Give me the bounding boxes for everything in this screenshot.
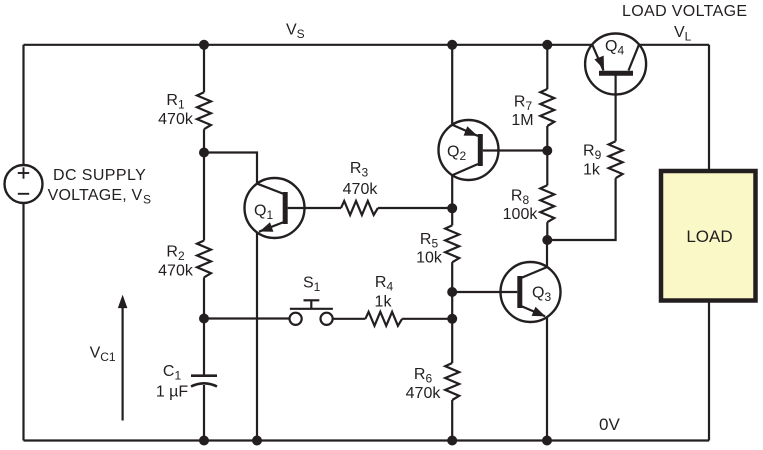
node: Q1 emitter/0V rail [252,436,262,446]
node: R6/0V rail [447,436,457,446]
wire: R9 top to Q4 base [614,76,616,142]
svg-text:1 µF: 1 µF [156,384,189,401]
wire: left rail upper [22,45,24,166]
node: VS rail / R7 [542,40,552,50]
transistor Q1 [245,178,305,238]
wire: left rail lower [22,203,24,441]
svg-text:Q2: Q2 [447,144,466,164]
node: Q3 emitter/0V rail [542,436,552,446]
node: R3/R5/Q2-collector junction [447,203,457,213]
wire: top rail right of Q4 to VL corner [639,44,709,46]
resistor R4 [365,312,402,326]
node: C1/0V rail [199,436,209,446]
transistor Q4 [585,34,646,95]
node: R8/Q3-collector/R9 junction [542,235,552,245]
svg-text:R9: R9 [583,143,602,163]
wire: R7 to R8 [546,126,548,185]
wire: R4 to R5/R6 node [402,318,452,320]
wire: Q1 emitter to 0V rail [256,232,258,440]
capacitor C1 [191,376,217,387]
resistor R2 [197,241,211,278]
svg-text:LOAD: LOAD [686,227,732,246]
resistor R5 [445,225,459,262]
svg-text:LOAD VOLTAGE: LOAD VOLTAGE [622,3,747,20]
resistor R7 [540,89,554,126]
svg-text:470k: 470k [343,181,379,198]
wire: Q2 collector down to R3/R5 node [451,175,453,208]
svg-text:R7: R7 [514,94,533,114]
svg-text:Q1: Q1 [254,203,273,223]
svg-text:R5: R5 [420,231,439,251]
resistor R1 [197,92,211,129]
svg-text:R6: R6 [414,366,433,386]
svg-text:100k: 100k [503,206,539,223]
wire: VS rail to Q2 emitter [451,45,453,125]
wire: junction to Q1 collector [204,153,257,184]
wire: R6 to 0V rail [451,400,453,441]
svg-text:S1: S1 [303,275,321,295]
wire: node to R5 [451,208,453,225]
node: R7/R8/Q2 base junction [542,146,552,156]
wire: C1 bottom to 0V rail [203,385,205,441]
resistor R6 [445,363,459,400]
annotation: VC1 arrow [121,306,123,421]
svg-text:Q4: Q4 [605,38,624,58]
transistor Q3 [501,262,561,322]
wire: R2 bottom to C1 top [203,277,205,375]
svg-text:R4: R4 [375,274,394,294]
node: R2/C1/S1 junction [199,314,209,324]
wire: R1 bottom to R2 top [203,129,205,240]
node: R4/R5/R6 junction [447,314,457,324]
svg-text:R8: R8 [511,188,530,208]
switch S1 (pushbutton) [204,317,289,319]
svg-text:R1: R1 [166,92,185,112]
svg-text:VL: VL [674,24,692,44]
node: R1/R2/Q1-collector junction [199,148,209,158]
wire: node to R9 (bottom) [547,178,615,240]
svg-text:VC1: VC1 [90,345,116,365]
wire: load bottom to 0V rail [708,301,710,441]
wire: bottom 0V rail [24,439,710,441]
svg-text:C1: C1 [163,363,182,383]
load box [661,171,756,301]
wire: R8 to node [546,222,548,240]
svg-text:0V: 0V [599,415,620,434]
node: VS rail / Q1-R1 branch [199,40,209,50]
wire: VL corner down to load [708,45,710,170]
svg-text:1k: 1k [583,162,601,179]
svg-text:Q3: Q3 [532,285,551,305]
wire: Q3 collector up to node [546,240,548,267]
wire: R3 to R5 node [378,207,452,209]
wire: VS rail to R1 [203,45,205,93]
wire: Q3 emitter to 0V rail [546,317,548,440]
resistor R3 [341,201,378,215]
resistor R9 [609,141,623,178]
node: Q3 base junction [447,287,457,297]
svg-text:10k: 10k [416,250,443,267]
svg-text:R3: R3 [350,160,369,180]
svg-text:R2: R2 [166,244,185,264]
svg-text:VS: VS [286,22,305,42]
wire: VS rail to R7 [546,45,548,89]
transistor Q2 [439,120,499,180]
label: - terminal [18,193,29,195]
svg-text:470k: 470k [158,262,194,279]
voltage source V (DC supply) [5,165,43,203]
svg-text:S: S [143,193,151,207]
svg-text:1k: 1k [375,294,393,311]
label: + terminal [18,167,29,178]
resistor R8 [540,185,554,222]
svg-text:VOLTAGE, V: VOLTAGE, V [48,187,143,204]
wire: top supply rail [24,44,593,46]
svg-text:470k: 470k [406,385,442,402]
wire: R5 bottom through nodes to R6 [451,262,453,363]
svg-text:DC SUPPLY: DC SUPPLY [53,167,146,184]
node: VS rail / Q2 emitter [447,40,457,50]
svg-text:470k: 470k [158,111,194,128]
wire: Q1 base to R3 [305,207,342,209]
wire: S1 to R4 [333,318,366,320]
svg-text:1M: 1M [511,112,533,129]
